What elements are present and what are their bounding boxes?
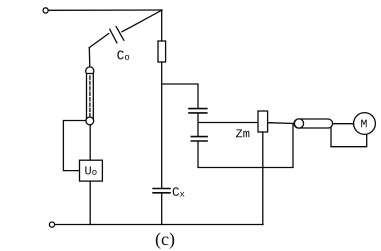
wire diagonal upper to Co	[122, 10, 162, 32]
capacitor C2 plate 1	[191, 136, 207, 138]
wire Zm right to cable	[268, 122, 295, 125]
wire diagonal lower from Co	[89, 34, 108, 48]
wire top rail	[48, 9, 162, 11]
capacitor C1 plate 1	[189, 108, 207, 110]
tubular resistor top electrode	[86, 67, 94, 75]
wire branch to divider caps	[162, 84, 198, 108]
svg-text:Cx: Cx	[172, 186, 185, 200]
svg-text:M: M	[360, 118, 367, 131]
capacitor C2 plate 2	[191, 140, 207, 142]
svg-text:Co: Co	[117, 48, 130, 63]
resistor R	[158, 41, 166, 62]
impedance Zm box	[258, 111, 268, 132]
svg-text:(c): (c)	[155, 229, 175, 250]
wire to tube top	[88, 48, 91, 68]
wire Cx bottom to rail	[161, 193, 163, 225]
capacitor Co plate 1	[116, 27, 124, 41]
tubular resistor dashed core	[89, 76, 91, 118]
wire C1 to C2	[197, 113, 199, 136]
cable body	[294, 119, 333, 128]
wire bottom rail	[55, 224, 263, 226]
tubular resistor body	[87, 74, 94, 121]
wire cable to meter M	[333, 123, 354, 125]
capacitor Co plate 2	[110, 29, 117, 43]
svg-text:Zm: Zm	[235, 127, 249, 141]
wire Zm bottom to rail	[262, 132, 264, 225]
source U0 box	[80, 160, 103, 181]
wire C2 bottom to cable left	[198, 124, 293, 167]
wire left branch tube to U0 left	[63, 121, 85, 171]
wire tap to Zm	[198, 122, 258, 124]
capacitor Cx plate 1	[153, 188, 170, 190]
wire U0 to bottom rail	[89, 181, 91, 224]
wire loop cable sheath to meter	[331, 128, 367, 147]
capacitor Cx plate 2	[153, 192, 170, 194]
wire corner to resistor R	[161, 10, 163, 41]
terminal top-left	[43, 8, 48, 13]
wire tube to U0 box	[89, 125, 91, 160]
capacitor C1 plate 2	[189, 112, 207, 114]
wire resistor to Cx	[161, 62, 163, 188]
terminal bottom-left	[49, 222, 54, 227]
cable end circle	[294, 119, 303, 128]
tubular resistor bottom electrode	[86, 117, 94, 125]
meter M circle	[354, 113, 376, 135]
